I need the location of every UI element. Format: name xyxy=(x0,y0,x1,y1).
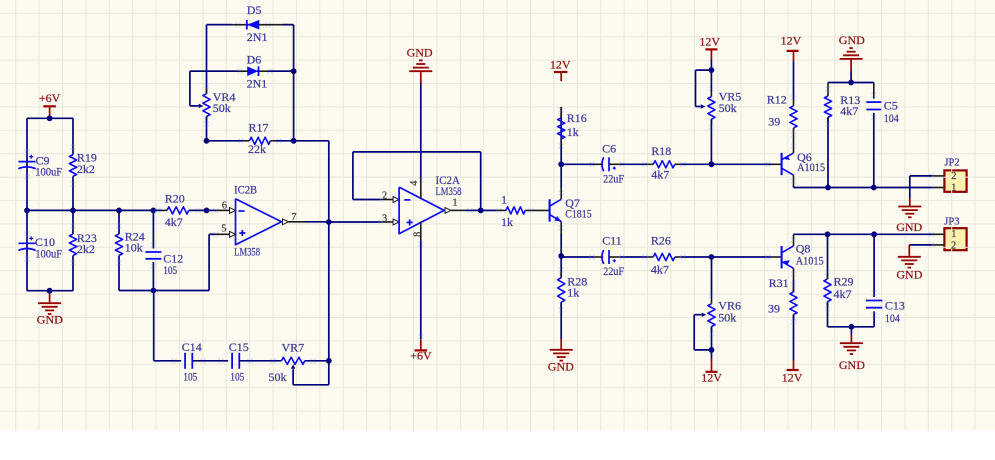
svg-text:C14: C14 xyxy=(182,340,202,354)
svg-text:1k: 1k xyxy=(567,125,579,139)
svg-text:100uF: 100uF xyxy=(35,246,62,260)
svg-text:C15: C15 xyxy=(229,340,249,354)
svg-text:50k: 50k xyxy=(269,370,287,384)
svg-text:1: 1 xyxy=(501,193,507,207)
svg-text:1k: 1k xyxy=(567,285,579,299)
svg-text:104: 104 xyxy=(885,311,900,325)
svg-text:1: 1 xyxy=(452,197,457,208)
svg-text:2: 2 xyxy=(951,241,956,252)
svg-text:2k2: 2k2 xyxy=(77,162,95,176)
svg-text:LM358: LM358 xyxy=(234,244,260,258)
svg-text:C6: C6 xyxy=(602,142,616,156)
svg-text:2k2: 2k2 xyxy=(77,242,95,256)
svg-text:104: 104 xyxy=(884,111,899,125)
svg-text:39: 39 xyxy=(768,301,780,315)
svg-text:C11: C11 xyxy=(602,233,622,247)
svg-text:JP2: JP2 xyxy=(944,157,959,168)
svg-text:100uF: 100uF xyxy=(35,165,62,179)
svg-text:50k: 50k xyxy=(718,310,736,324)
svg-text:C1815: C1815 xyxy=(565,206,592,220)
svg-text:50k: 50k xyxy=(213,101,231,115)
svg-text:R20: R20 xyxy=(165,192,185,206)
svg-text:22uF: 22uF xyxy=(603,264,624,278)
svg-text:50k: 50k xyxy=(719,101,737,115)
svg-text:2: 2 xyxy=(951,171,956,182)
svg-text:1: 1 xyxy=(951,229,956,240)
svg-text:12V: 12V xyxy=(701,371,722,385)
svg-text:39: 39 xyxy=(768,114,780,128)
svg-text:12V: 12V xyxy=(781,33,802,47)
svg-text:D5: D5 xyxy=(247,3,262,17)
svg-text:GND: GND xyxy=(896,220,922,234)
svg-text:R18: R18 xyxy=(651,144,671,158)
svg-text:2: 2 xyxy=(382,191,387,202)
svg-text:GND: GND xyxy=(839,33,865,47)
svg-text:22k: 22k xyxy=(248,142,266,156)
svg-text:6: 6 xyxy=(222,200,227,211)
svg-text:12V: 12V xyxy=(699,34,720,48)
svg-text:1k: 1k xyxy=(501,215,513,229)
svg-text:R31: R31 xyxy=(769,276,789,290)
svg-text:4k7: 4k7 xyxy=(165,215,183,229)
svg-text:105: 105 xyxy=(163,263,177,277)
svg-text:12V: 12V xyxy=(550,58,571,72)
svg-text:R16: R16 xyxy=(567,111,587,125)
svg-text:VR7: VR7 xyxy=(282,341,305,355)
svg-text:LM358: LM358 xyxy=(436,184,462,198)
svg-text:4k7: 4k7 xyxy=(651,168,669,182)
svg-text:5: 5 xyxy=(221,224,226,235)
svg-text:4k7: 4k7 xyxy=(840,104,858,118)
svg-text:4k7: 4k7 xyxy=(834,287,852,301)
svg-text:7: 7 xyxy=(291,212,296,223)
svg-text:JP3: JP3 xyxy=(944,217,959,228)
svg-text:IC2B: IC2B xyxy=(234,182,257,196)
svg-text:GND: GND xyxy=(548,359,574,373)
svg-text:3: 3 xyxy=(382,213,387,224)
svg-text:+6V: +6V xyxy=(39,91,61,105)
svg-text:2N1: 2N1 xyxy=(247,30,268,44)
svg-text:R26: R26 xyxy=(651,233,671,247)
svg-text:105: 105 xyxy=(183,369,197,383)
svg-text:R17: R17 xyxy=(249,120,269,134)
svg-text:4k7: 4k7 xyxy=(651,263,669,277)
svg-text:105: 105 xyxy=(230,369,244,383)
svg-text:D6: D6 xyxy=(247,53,262,67)
svg-text:A1015: A1015 xyxy=(796,254,824,268)
svg-text:10k: 10k xyxy=(125,241,143,255)
svg-text:8: 8 xyxy=(412,232,423,237)
svg-text:GND: GND xyxy=(896,267,922,281)
svg-text:12V: 12V xyxy=(782,370,803,384)
svg-text:GND: GND xyxy=(37,312,63,326)
svg-text:2N1: 2N1 xyxy=(247,76,268,90)
svg-text:A1015: A1015 xyxy=(797,160,825,174)
svg-text:+6V: +6V xyxy=(410,348,432,362)
svg-text:GND: GND xyxy=(839,358,865,372)
svg-text:22uF: 22uF xyxy=(603,171,624,185)
svg-text:GND: GND xyxy=(407,46,433,60)
svg-text:R12: R12 xyxy=(767,93,787,107)
svg-text:1: 1 xyxy=(951,183,956,194)
